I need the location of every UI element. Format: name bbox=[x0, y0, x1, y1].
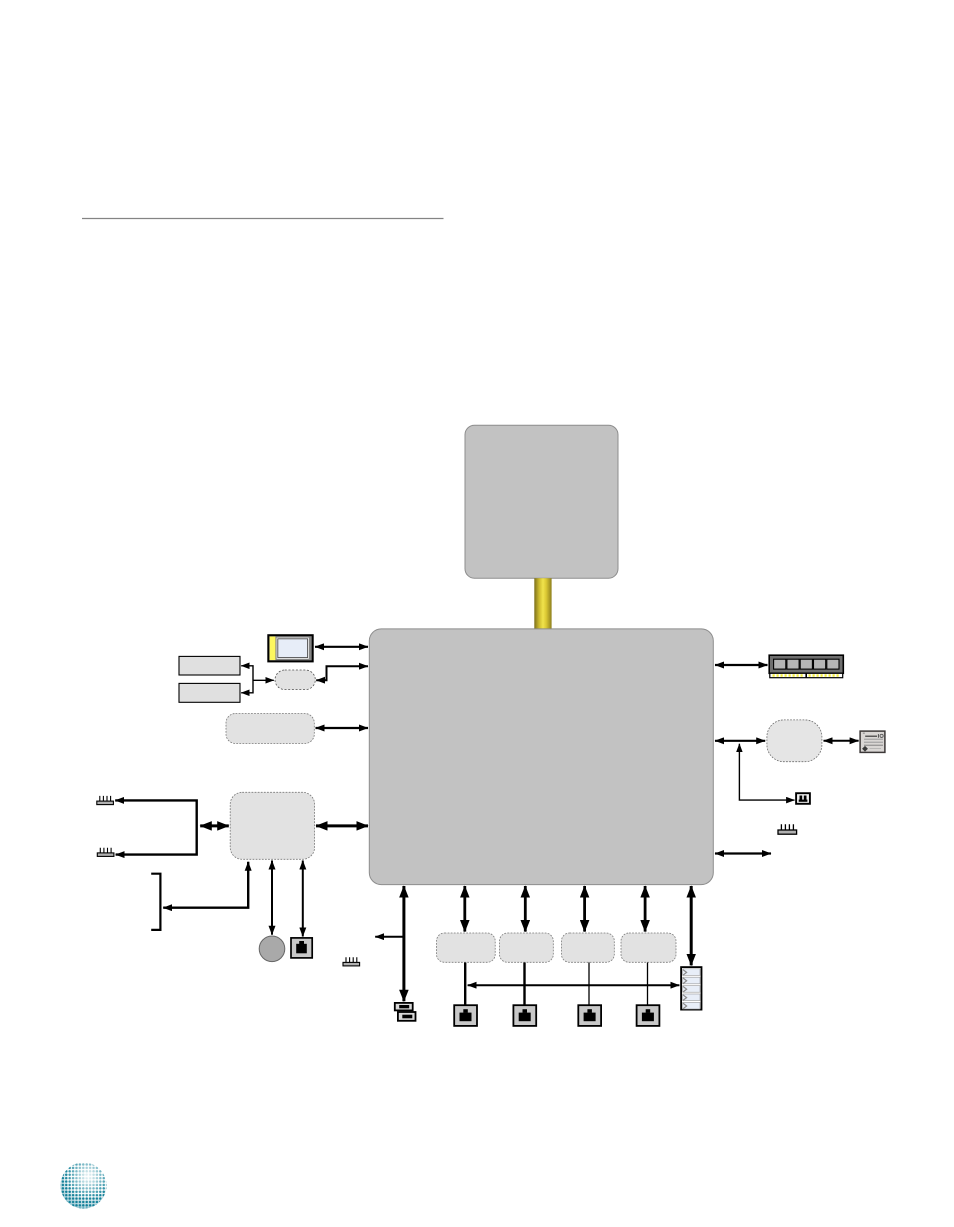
hub block B5 bbox=[230, 792, 314, 859]
RJ45 jack J2 bbox=[513, 1005, 536, 1026]
wire SoC-C bbox=[583, 886, 586, 932]
wire SoC-D bbox=[644, 886, 647, 932]
SoC main block U1 bbox=[369, 629, 713, 885]
port block C bbox=[562, 933, 615, 962]
wire SoC-usb long bbox=[402, 886, 405, 1001]
wire pill-SoC step bbox=[316, 666, 368, 680]
socket chip icon bbox=[796, 793, 810, 804]
port block D bbox=[621, 933, 676, 962]
RJ45 jack J4 bbox=[637, 1005, 660, 1026]
rounded block B4 bbox=[226, 714, 314, 744]
wire B-J2 bbox=[523, 963, 525, 1006]
heatsink block U-top bbox=[465, 425, 618, 578]
wire SoC right stub bbox=[715, 852, 771, 854]
display icon bbox=[268, 635, 312, 661]
wire D-J4 bbox=[647, 963, 649, 1006]
memory rect R1 bbox=[179, 656, 240, 675]
pill block bbox=[275, 670, 315, 690]
wire display-SoC bbox=[315, 646, 368, 648]
wire ports bus bbox=[468, 984, 680, 986]
wire bracket-pill bbox=[253, 679, 274, 681]
bracket symbol bbox=[151, 874, 160, 930]
wire SoC-connector bbox=[690, 886, 693, 965]
wire oval branch to chip bbox=[739, 744, 794, 800]
wire usb branch bbox=[375, 936, 404, 938]
logo sphere bbox=[61, 1163, 107, 1209]
pin header P1 bbox=[97, 796, 114, 805]
wire headers L bbox=[115, 800, 197, 854]
wire bracketline-hub bbox=[200, 824, 229, 827]
wire B4-SoC bbox=[316, 727, 369, 729]
wire SoC-A bbox=[463, 886, 466, 932]
wire hub-circle bbox=[271, 861, 273, 935]
RJ45 jack J0 (near circle) bbox=[291, 938, 312, 958]
wire bracket-hub bbox=[163, 862, 248, 908]
port block B bbox=[500, 933, 554, 962]
RJ45 jack J3 bbox=[578, 1005, 601, 1026]
wire SoC-B bbox=[524, 886, 527, 932]
wire rects bracket bbox=[241, 666, 253, 693]
circle node bbox=[259, 936, 285, 962]
usb stack icon bbox=[395, 1003, 416, 1021]
card icon bbox=[860, 731, 885, 752]
striped connector bbox=[681, 967, 701, 1010]
section rule bbox=[82, 218, 444, 220]
RJ45 jack J1 bbox=[454, 1005, 477, 1026]
wire A-J1 bbox=[464, 963, 466, 1006]
wire SoC-DIMM bbox=[715, 664, 768, 666]
port block A bbox=[437, 933, 496, 962]
pin header P4 bbox=[778, 824, 797, 834]
wire SoC-oval bbox=[715, 740, 765, 742]
DIMM module bbox=[769, 655, 843, 678]
pin header P3 bbox=[343, 957, 360, 966]
wire hub-J0 bbox=[302, 861, 304, 937]
memory rect R2 bbox=[179, 683, 240, 702]
oval block bbox=[767, 720, 822, 762]
pin header P2 bbox=[97, 848, 114, 857]
wire C-J3 bbox=[588, 963, 590, 1006]
wire hub-SoC bbox=[316, 824, 368, 827]
gold thermal post bbox=[534, 578, 551, 630]
wire oval-card bbox=[824, 740, 859, 742]
